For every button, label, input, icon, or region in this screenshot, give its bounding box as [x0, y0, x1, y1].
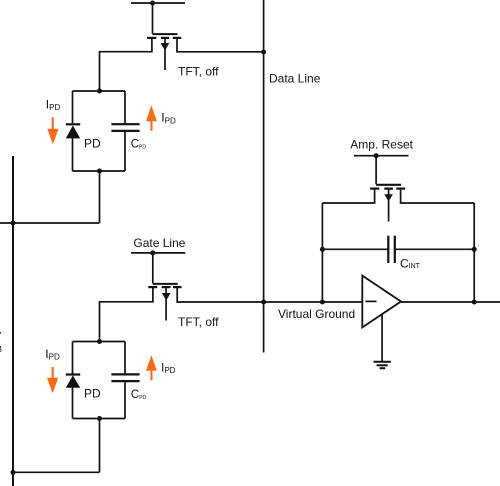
label CINT	[400, 256, 421, 270]
node bias line 1	[11, 221, 16, 226]
wire PD2 anode branch	[72, 342, 74, 374]
wire amp reset segment	[354, 155, 409, 157]
wire PD2 box bottom	[73, 418, 126, 420]
wire TFT3 drain to right branch	[401, 189, 475, 203]
wire PD1 box bottom	[73, 170, 126, 172]
svg-text:TFT, off: TFT, off	[178, 64, 219, 78]
wire C2 top branch	[124, 342, 126, 374]
wire PD1 box top	[73, 90, 126, 92]
wire TFT1 drain to data line	[177, 39, 264, 52]
label clipped V at edge	[0, 329, 2, 354]
ground	[374, 362, 391, 368]
wire TFT1 source to PD1 top	[100, 39, 152, 91]
node PD1 top	[97, 89, 102, 94]
node data line / TFT1	[261, 50, 266, 55]
label Gate Line	[133, 236, 185, 250]
capacitor CINT	[388, 236, 395, 263]
wire PD1 anode branch	[72, 91, 74, 123]
label IPD2 right	[161, 360, 176, 375]
label PD2	[84, 386, 101, 400]
wire op-amp plus input to ground	[381, 315, 383, 362]
node CINT right	[472, 247, 477, 252]
label CPD1	[131, 138, 147, 150]
node bias line 2	[11, 470, 16, 475]
wire CINT right segment	[396, 248, 475, 250]
label PD1	[84, 137, 101, 151]
transistor TFT3 channel contacts	[370, 188, 405, 190]
label Amp. Reset	[350, 138, 413, 152]
wire bias line 1	[0, 222, 100, 224]
current arrow IPD2 down	[47, 367, 58, 393]
label IPD1 right	[161, 111, 176, 126]
node top gate junction	[150, 1, 155, 6]
wire C2 bottom branch	[124, 382, 126, 418]
wire PD2 cathode branch	[72, 387, 74, 418]
node PD2 bottom	[97, 416, 102, 421]
svg-text:Data Line: Data Line	[269, 72, 321, 86]
node rail right branch	[472, 300, 477, 305]
wire C1 top branch	[124, 91, 126, 123]
wire C1 bottom branch	[124, 132, 126, 171]
wire top bias segment	[131, 2, 185, 4]
photodiode PD2	[66, 375, 80, 388]
transistor TFT1 middle lead with arrow	[161, 39, 170, 70]
svg-text:Virtual Ground: Virtual Ground	[278, 307, 355, 321]
transistor TFT3 gate bar	[376, 184, 401, 186]
transistor TFT2 middle lead with arrow	[162, 288, 171, 321]
transistor TFT1 channel contacts	[147, 37, 181, 39]
svg-text:TFT, off: TFT, off	[178, 315, 219, 329]
wire PD2 bottom drop	[99, 419, 101, 473]
wire feedback left branch	[321, 203, 323, 302]
transistor TFT2 gate bar	[153, 283, 178, 285]
op-amp U1	[362, 276, 401, 328]
transistor TFT1 gate bar	[153, 33, 178, 35]
wire gate lead TFT3	[375, 156, 377, 184]
current arrow IPD1 down	[47, 117, 58, 144]
wire PD1 bottom drop	[99, 171, 101, 223]
capacitor CPD2	[111, 374, 139, 381]
wire feedback right branch	[473, 203, 475, 302]
svg-text:PD: PD	[84, 137, 101, 151]
node amp reset junction	[374, 153, 379, 158]
svg-text:Amp. Reset: Amp. Reset	[350, 138, 413, 152]
node rail left branch	[320, 300, 325, 305]
wire op-amp output	[401, 301, 500, 303]
node rail data line	[261, 300, 266, 305]
node gate line junction	[150, 250, 155, 255]
wire TFT3 source to left branch	[322, 189, 374, 203]
wire bias line 2	[13, 471, 100, 473]
svg-text:Gate Line: Gate Line	[133, 236, 185, 250]
node CINT left	[320, 247, 325, 252]
wire gate lead TFT1	[152, 3, 154, 34]
label IPD2 left	[45, 347, 60, 362]
capacitor CPD1	[111, 124, 139, 131]
wire TFT2 drain to virtual ground rail	[177, 288, 362, 302]
wire data line	[263, 0, 265, 353]
current arrow ICPD2 up	[146, 355, 157, 380]
wire left column line	[12, 156, 14, 486]
node PD2 top	[97, 339, 102, 344]
photodiode PD1	[66, 124, 80, 138]
wire gate line segment	[131, 252, 185, 254]
node PD1 bottom	[97, 169, 102, 174]
label CPD2	[131, 389, 147, 401]
transistor TFT3 middle lead with arrow	[384, 189, 393, 221]
wire PD1 cathode branch	[72, 138, 74, 171]
wire TFT2 source to PD2 top	[100, 288, 153, 342]
label TFT2	[178, 315, 219, 329]
current arrow ICPD1 up	[146, 105, 157, 131]
label Virtual Ground	[278, 307, 355, 321]
wire gate lead TFT2	[152, 253, 154, 284]
label TFT1	[178, 64, 219, 78]
transistor TFT2 channel contacts	[148, 286, 181, 288]
svg-text:PD: PD	[84, 386, 101, 400]
label Data Line	[269, 72, 321, 86]
svg-text:B: B	[0, 344, 2, 354]
wire CINT left segment	[322, 248, 387, 250]
wire PD2 box top	[73, 341, 126, 343]
label IPD1 left	[46, 97, 61, 112]
